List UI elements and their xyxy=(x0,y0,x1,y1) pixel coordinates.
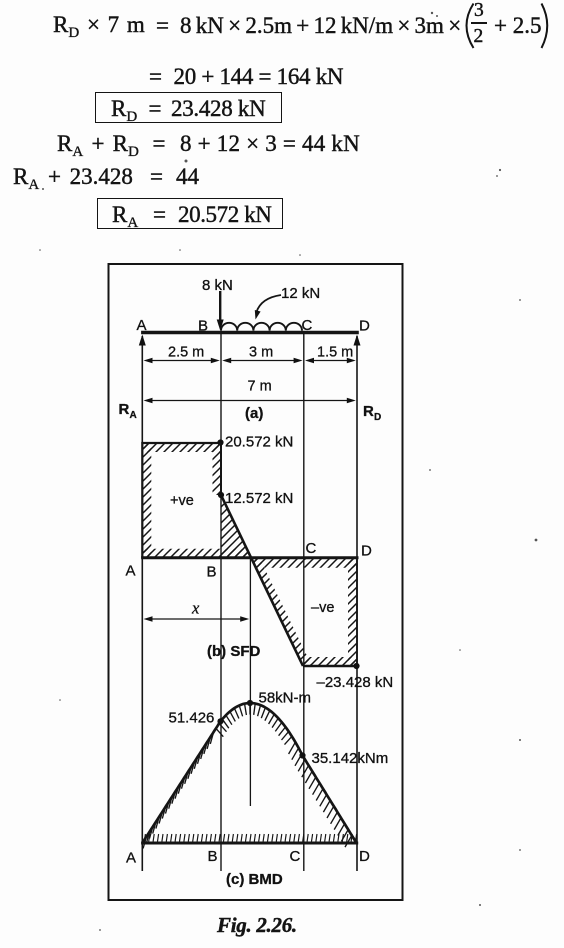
svg-text:A: A xyxy=(137,317,147,334)
svg-text:C: C xyxy=(306,540,317,557)
svg-text:D: D xyxy=(374,412,381,423)
svg-text:B: B xyxy=(198,318,208,335)
svg-text:D: D xyxy=(359,848,370,865)
svg-text:A: A xyxy=(130,410,137,421)
svg-text:(a): (a) xyxy=(245,405,263,422)
svg-text:1.5 m: 1.5 m xyxy=(317,345,353,361)
svg-text:D: D xyxy=(361,543,372,560)
svg-text:–ve: –ve xyxy=(311,600,334,616)
svg-text:(b) SFD: (b) SFD xyxy=(207,643,260,660)
svg-text:C: C xyxy=(290,848,301,865)
svg-text:58kN-m: 58kN-m xyxy=(259,690,312,707)
svg-text:8 kN: 8 kN xyxy=(202,277,233,294)
svg-text:D: D xyxy=(359,318,370,335)
svg-text:20.572 kN: 20.572 kN xyxy=(225,434,293,451)
svg-text:x: x xyxy=(191,599,200,618)
svg-text:B: B xyxy=(207,564,217,581)
svg-text:(c) BMD: (c) BMD xyxy=(226,871,283,888)
svg-text:–23.428 kN: –23.428 kN xyxy=(317,674,394,691)
svg-text:+ve: +ve xyxy=(170,493,194,509)
svg-text:12.572 kN: 12.572 kN xyxy=(225,490,293,507)
svg-text:A: A xyxy=(126,850,136,867)
svg-text:7 m: 7 m xyxy=(248,379,272,395)
svg-text:12 kN: 12 kN xyxy=(281,285,320,302)
svg-text:2.5 m: 2.5 m xyxy=(168,345,204,361)
svg-text:C: C xyxy=(302,317,313,334)
svg-text:B: B xyxy=(208,848,218,865)
svg-text:3 m: 3 m xyxy=(249,345,273,361)
svg-text:A: A xyxy=(126,563,136,580)
svg-text:R: R xyxy=(119,401,130,418)
svg-text:R: R xyxy=(363,403,374,420)
svg-text:51.426: 51.426 xyxy=(169,710,215,727)
svg-text:35.142kNm: 35.142kNm xyxy=(312,750,389,767)
